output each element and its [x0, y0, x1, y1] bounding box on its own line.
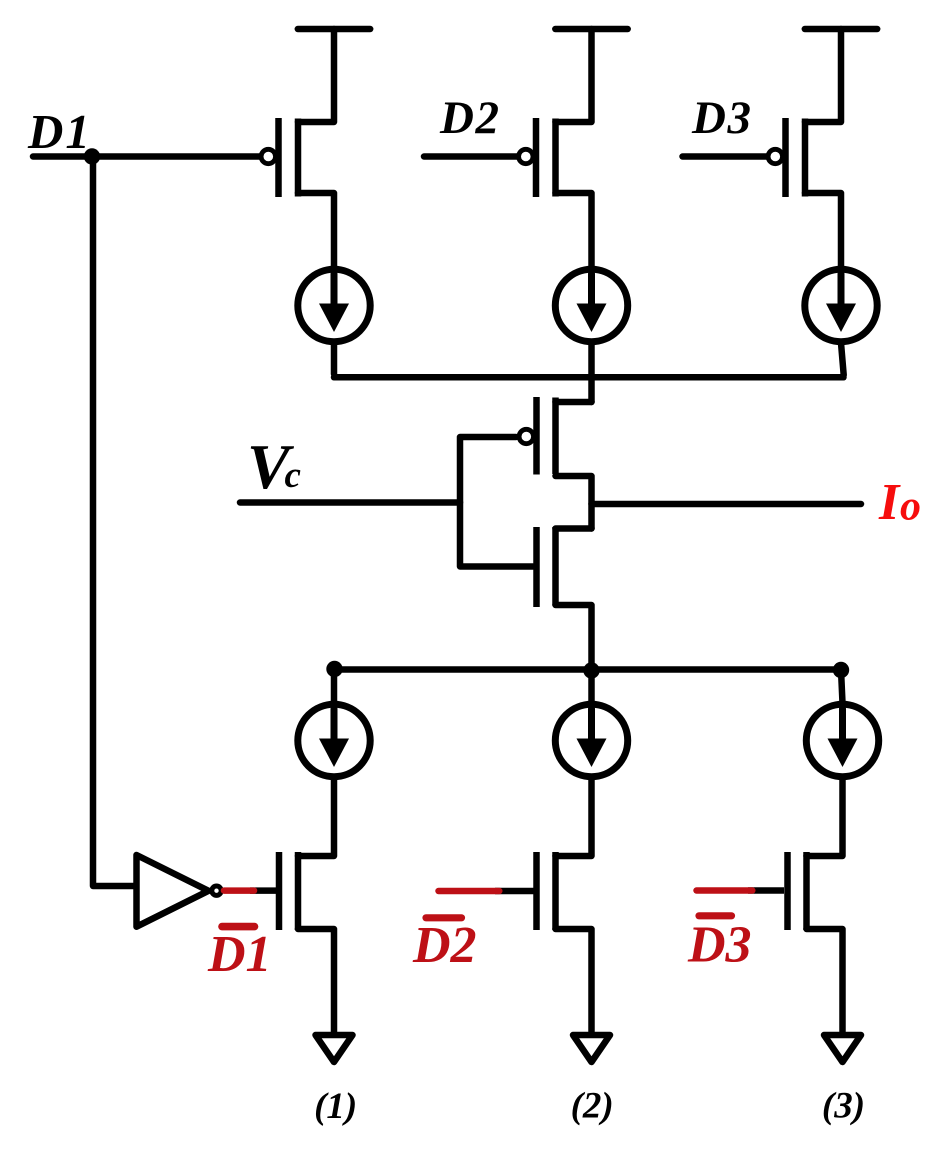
- current source I1 arrow: [319, 274, 349, 333]
- node D1bar overline: [222, 923, 255, 931]
- transistor M8 channel bar: [552, 527, 559, 606]
- svg-text:D1: D1: [207, 926, 272, 983]
- ground symbol column 3: [824, 1035, 861, 1062]
- current source I5 circle: [555, 704, 627, 776]
- node D1bar label: [207, 926, 272, 983]
- wire: drain of M1 down to current source: [298, 193, 334, 266]
- transistor M8 gate bar: [533, 527, 540, 607]
- transistor M5 (NMOS) channel bar: [552, 852, 559, 930]
- power rail bar (VDD) M2: [555, 26, 627, 33]
- wire: source of M4 to ground: [298, 929, 334, 1032]
- current source I2 circle: [555, 269, 627, 341]
- node Vc label: [247, 431, 301, 502]
- wire: current source I3 to upper rail (slanted): [841, 343, 844, 375]
- node D3bar label: [687, 917, 752, 974]
- current source I4 circle: [298, 704, 370, 776]
- node junction dot lower rail right: [833, 662, 849, 678]
- svg-text:c: c: [285, 455, 301, 496]
- wire: D3bar input stub (red): [697, 887, 753, 894]
- wire: upper rail joining I1 I2 I3: [334, 374, 844, 381]
- wire: lower rail to current source I5: [588, 670, 595, 703]
- svg-text:D2: D2: [439, 92, 500, 144]
- wire: gate bracket joining M7 and M8 gates: [460, 437, 533, 567]
- svg-text:D2: D2: [412, 917, 477, 974]
- transistor M2 (PMOS) channel bar: [552, 119, 559, 197]
- transistor M2 gate bar: [533, 118, 540, 197]
- node junction dot lower rail middle: [583, 662, 599, 678]
- current source I6 circle: [806, 704, 878, 776]
- power rail bar (VDD) M3: [805, 26, 877, 33]
- transistor M7 gate bubble: [519, 429, 533, 443]
- node D2 label: [439, 92, 500, 144]
- wire: inverter output stub (red): [224, 887, 254, 894]
- power rail bar (VDD) M1: [298, 26, 370, 33]
- svg-text:(1): (1): [314, 1086, 357, 1127]
- inverter U1 output bubble: [212, 886, 221, 895]
- transistor M5 gate bar: [533, 852, 540, 930]
- wire: lower rail to current source I6 (slanted): [841, 670, 843, 703]
- transistor M3 (PMOS) channel bar: [802, 119, 809, 197]
- transistor M4 (NMOS) channel bar: [295, 852, 302, 930]
- node D2bar label: [412, 917, 477, 974]
- current source I3 circle: [805, 269, 877, 341]
- wire: current source I1 to upper rail: [331, 345, 338, 374]
- wire: gate segment to M6 (black): [748, 887, 784, 894]
- wire: gate segment to M4 (black): [250, 887, 277, 894]
- wire: D1 down left side to inverter input: [93, 157, 139, 887]
- wire: Vc input line: [240, 499, 460, 506]
- wire: source of M5 to ground: [556, 929, 592, 1032]
- wire: D2 input to gate of M2: [424, 153, 520, 160]
- current source I4 arrow: [319, 709, 349, 768]
- svg-text:D3: D3: [687, 917, 752, 974]
- transistor M1 gate bar: [275, 118, 282, 197]
- wire: gate segment to M5 (black): [495, 888, 534, 895]
- node Io label: [878, 474, 921, 531]
- current source I1 circle: [298, 269, 370, 341]
- wire: D2bar input stub (red): [439, 888, 500, 895]
- transistor M6 (NMOS) channel bar: [803, 852, 810, 930]
- label (1): [314, 1086, 357, 1127]
- wire: current source to drain of M6: [807, 780, 843, 856]
- ground symbol column 1: [316, 1035, 353, 1062]
- wire: drain of M2 down to current source: [556, 193, 592, 266]
- wire: D3 input to gate of M3: [683, 153, 770, 160]
- transistor M3 gate bar: [782, 118, 789, 197]
- transistor M3 gate bubble: [768, 149, 782, 163]
- wire: current source to drain of M4: [298, 780, 334, 856]
- wire: lower rail to current source I4: [331, 669, 338, 703]
- transistor M7 channel bar: [552, 398, 559, 475]
- transistor M7 (PMOS) source wire: [556, 399, 592, 406]
- current source I2 arrow: [577, 274, 607, 333]
- wire: upper rail down to source of M7: [588, 377, 595, 402]
- svg-text:I: I: [878, 474, 901, 531]
- svg-text:(2): (2): [571, 1086, 614, 1127]
- wire: source of M6 to ground: [807, 929, 843, 1032]
- ground symbol column 2: [573, 1035, 610, 1062]
- node D3bar overline: [699, 912, 732, 919]
- node D1 junction dot: [84, 148, 100, 164]
- wire: current source to drain of M5: [556, 780, 592, 856]
- transistor M2 gate bubble: [519, 149, 533, 163]
- wire: VDD to source of M2: [556, 29, 592, 122]
- transistor M1 gate bubble: [261, 149, 275, 163]
- wire: lower rail joining I4 I5 I6: [334, 666, 841, 673]
- label (3): [822, 1086, 865, 1127]
- transistor M1 (PMOS) channel bar: [295, 119, 302, 197]
- node D2bar overline: [426, 914, 462, 921]
- svg-text:D3: D3: [691, 92, 752, 144]
- label (2): [571, 1086, 614, 1127]
- transistor M7 gate bar: [533, 397, 540, 475]
- wire: current source I2 to upper rail: [588, 345, 595, 374]
- wire: VDD to source of M1: [298, 29, 334, 122]
- current source I5 arrow: [577, 709, 607, 768]
- transistor M6 gate bar: [784, 852, 791, 930]
- current source I3 arrow: [826, 274, 856, 333]
- svg-text:o: o: [900, 484, 921, 530]
- current source I6 arrow: [828, 709, 858, 768]
- node D1 label: [27, 104, 92, 159]
- wire: VDD to source of M3: [805, 29, 841, 122]
- svg-text:D1: D1: [27, 104, 92, 159]
- wire: output line to Io: [592, 501, 862, 508]
- node junction dot lower rail left: [326, 661, 342, 677]
- wire: drain of M3 down to current source: [805, 193, 841, 266]
- wire: source of M8 down to lower rail: [556, 605, 592, 670]
- transistor M4 gate bar: [276, 852, 283, 930]
- svg-text:(3): (3): [822, 1086, 865, 1127]
- inverter U1 triangle: [137, 855, 209, 927]
- wire: drain of M7 to output node: [556, 476, 592, 529]
- node D3 label: [691, 92, 752, 144]
- wire: D1 input to gate of M1: [33, 153, 262, 160]
- transistor M8 (NMOS) drain wire: [556, 525, 592, 532]
